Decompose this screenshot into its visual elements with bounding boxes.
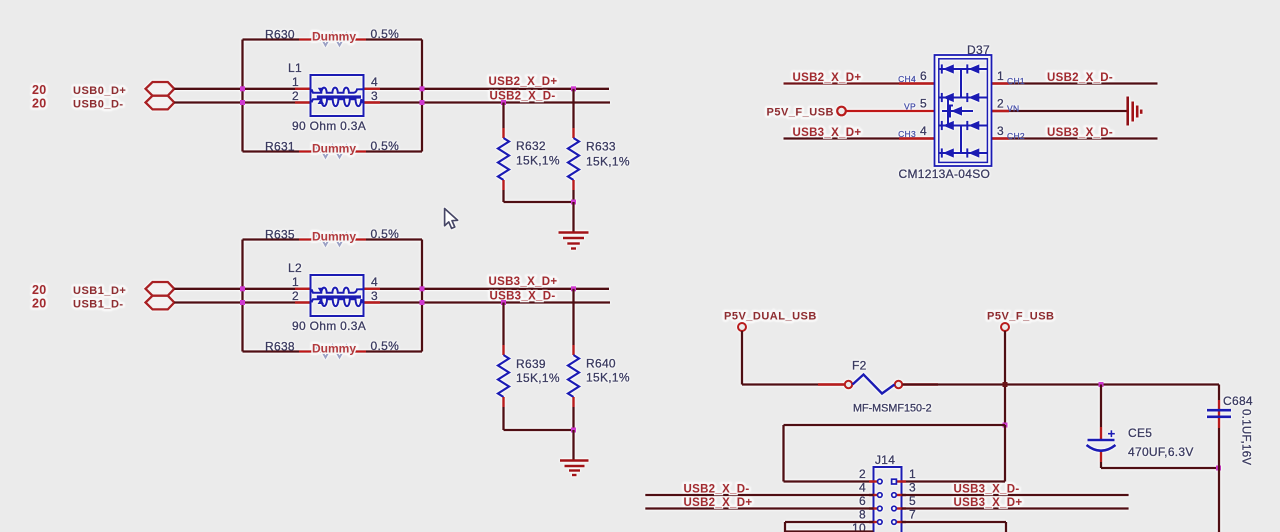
wire to J14 pin2 bbox=[784, 480, 874, 482]
svg-text:4: 4 bbox=[920, 124, 927, 138]
pin number 20 (USB1_D+) bbox=[32, 283, 47, 297]
svg-text:Dummy: Dummy bbox=[312, 142, 356, 156]
net label USB3_X_D- (J14) bbox=[954, 484, 1020, 496]
junction dot R633 tap bbox=[571, 86, 576, 91]
svg-text:USB0_D-: USB0_D- bbox=[73, 99, 124, 111]
wire USB1_D+ horizontal bbox=[174, 288, 609, 290]
resistor R632 bbox=[498, 103, 560, 203]
J14 pin circles right bbox=[892, 479, 906, 524]
svg-text:2: 2 bbox=[997, 97, 1004, 111]
wire down to ground 2 bbox=[572, 430, 574, 460]
D37 diode row 3 bbox=[939, 121, 988, 130]
wire P5V_F_USB down bbox=[1004, 331, 1006, 425]
wire R639/R640 bottom join bbox=[504, 429, 574, 431]
svg-text:VP: VP bbox=[904, 102, 916, 112]
junction dot R632 tap bbox=[501, 100, 506, 105]
net label USB3_X_D- (D37) bbox=[1047, 127, 1113, 139]
svg-text:3: 3 bbox=[371, 289, 378, 303]
svg-text:CH2: CH2 bbox=[1007, 131, 1025, 141]
D37 pin numbers bbox=[920, 69, 1004, 138]
wire R638 bottom horizontal bbox=[243, 350, 423, 352]
D37 internal verticals bbox=[948, 69, 961, 153]
svg-text:20: 20 bbox=[32, 97, 47, 111]
mouse cursor bbox=[445, 209, 458, 229]
svg-text:R640: R640 bbox=[586, 357, 616, 371]
wire USB1_D- horizontal bbox=[174, 301, 610, 303]
svg-text:Dummy: Dummy bbox=[312, 342, 356, 356]
wire D37 pin5 left (P5V_F_USB) bbox=[846, 110, 935, 112]
wire R631 bottom horizontal bbox=[243, 150, 423, 152]
svg-text:1: 1 bbox=[292, 275, 299, 289]
svg-text:R630: R630 bbox=[265, 28, 295, 42]
svg-text:P5V_DUAL_USB: P5V_DUAL_USB bbox=[724, 311, 817, 323]
wire D37 pin4 left bbox=[784, 137, 935, 139]
J14 pin numbers left bbox=[852, 467, 866, 532]
svg-text:L2: L2 bbox=[288, 261, 302, 275]
net label USB2_X_D- (D37) bbox=[1047, 72, 1113, 84]
svg-text:USB3_X_D+: USB3_X_D+ bbox=[954, 497, 1023, 509]
svg-text:20: 20 bbox=[32, 297, 47, 311]
svg-text:R631: R631 bbox=[265, 140, 295, 154]
svg-text:C684: C684 bbox=[1223, 394, 1253, 408]
resistor R633 bbox=[568, 89, 630, 202]
junction dot CE5 bbox=[1099, 382, 1104, 387]
junction dot P5V loop bbox=[1003, 423, 1008, 428]
J14 pin numbers right bbox=[909, 467, 916, 522]
wire J14 pin10 row bbox=[785, 530, 874, 532]
svg-text:20: 20 bbox=[32, 83, 47, 97]
inductor L1 (common mode choke) bbox=[288, 61, 380, 133]
svg-text:USB2_X_D+: USB2_X_D+ bbox=[489, 76, 558, 88]
wire J14 pin7 row bbox=[902, 522, 1007, 532]
svg-text:USB2_X_D-: USB2_X_D- bbox=[1047, 72, 1113, 84]
svg-text:4: 4 bbox=[371, 75, 378, 89]
resistor R638 (dummy) bbox=[265, 339, 399, 358]
D37 diode row 2 bbox=[939, 93, 988, 102]
ground symbol (bottom left) bbox=[560, 461, 589, 476]
net label USB2_X_D- (J14) bbox=[684, 484, 750, 496]
wire J14 pin1 to rail bbox=[902, 425, 1006, 482]
D37 zener middle bbox=[942, 106, 973, 117]
net label USB2_X_D+ (J14) bbox=[684, 497, 753, 509]
wire CE5 bottom to rail bbox=[1101, 467, 1219, 469]
junction dot bottom join bbox=[571, 200, 576, 205]
D37 diode row 4 bbox=[939, 148, 988, 157]
ground symbol (top) bbox=[559, 233, 589, 249]
svg-text:CH3: CH3 bbox=[898, 129, 916, 139]
port USB1_D+ bbox=[73, 282, 174, 297]
wire down to ground bbox=[572, 202, 574, 232]
svg-text:USB1_D-: USB1_D- bbox=[73, 299, 124, 311]
wire J14 pin8 row bbox=[785, 522, 874, 532]
svg-text:P5V_F_USB: P5V_F_USB bbox=[767, 107, 834, 119]
resistor R635 (dummy) bbox=[265, 227, 399, 246]
wire P5V_DUAL_USB down bbox=[741, 331, 743, 385]
svg-text:CH1: CH1 bbox=[1007, 76, 1025, 86]
net label USB3_X_D+ bbox=[489, 276, 558, 288]
svg-text:L1: L1 bbox=[288, 61, 302, 75]
net label USB3_X_D- bbox=[490, 291, 556, 303]
svg-text:1: 1 bbox=[292, 75, 299, 89]
wire R635/R638 loop right vertical bbox=[421, 240, 423, 352]
svg-text:USB3_X_D+: USB3_X_D+ bbox=[793, 127, 862, 139]
svg-text:R635: R635 bbox=[265, 228, 295, 242]
svg-text:CH4: CH4 bbox=[898, 74, 916, 84]
junction dot C684 bottom bbox=[1216, 466, 1221, 471]
junction dot R640 tap bbox=[571, 286, 576, 291]
svg-text:USB3_X_D-: USB3_X_D- bbox=[490, 291, 556, 303]
wire fuse to rail bbox=[903, 383, 1220, 385]
resistor R639 bbox=[498, 303, 560, 431]
svg-text:MF-MSMF150-2: MF-MSMF150-2 bbox=[853, 403, 932, 415]
wire D37 pin3 right bbox=[992, 137, 1158, 139]
port USB0_D- bbox=[73, 96, 174, 111]
svg-text:6: 6 bbox=[920, 69, 927, 83]
wire J14 pin5 row bbox=[645, 507, 1128, 509]
svg-text:USB0_D+: USB0_D+ bbox=[73, 85, 126, 97]
capacitor C684 bbox=[1207, 385, 1253, 532]
svg-text:1: 1 bbox=[909, 467, 916, 481]
svg-text:0.5%: 0.5% bbox=[371, 339, 400, 353]
svg-text:20: 20 bbox=[32, 283, 47, 297]
svg-text:USB3_X_D-: USB3_X_D- bbox=[954, 484, 1020, 496]
svg-text:CM1213A-04SO: CM1213A-04SO bbox=[899, 167, 991, 181]
svg-text:P5V_F_USB: P5V_F_USB bbox=[987, 311, 1054, 323]
net label USB3_X_D+ (D37) bbox=[793, 127, 862, 139]
svg-text:Dummy: Dummy bbox=[312, 30, 356, 44]
D37 diode row 1 bbox=[939, 64, 988, 73]
wire R635/R638 loop left vertical bbox=[241, 240, 243, 352]
power port P5V_F_USB (left of D37) bbox=[767, 107, 846, 119]
svg-text:90 Ohm 0.3A: 90 Ohm 0.3A bbox=[292, 319, 366, 333]
wire D37 pin6 left bbox=[784, 82, 935, 84]
wire R635 top horizontal bbox=[243, 238, 423, 240]
connector J14 body bbox=[874, 453, 902, 532]
svg-text:USB3_X_D-: USB3_X_D- bbox=[1047, 127, 1113, 139]
junction dot bottom join 2 bbox=[571, 428, 576, 433]
svg-text:3: 3 bbox=[909, 481, 916, 495]
junction dots loop/top wires bbox=[240, 86, 425, 105]
svg-text:USB1_D+: USB1_D+ bbox=[73, 285, 126, 297]
capacitor CE5 bbox=[1087, 385, 1194, 469]
resistor R640 bbox=[568, 289, 630, 430]
svg-text:90 Ohm 0.3A: 90 Ohm 0.3A bbox=[292, 119, 366, 133]
svg-text:470UF,6.3V: 470UF,6.3V bbox=[1128, 445, 1194, 459]
svg-text:0.5%: 0.5% bbox=[371, 139, 400, 153]
wire P5V loop left bbox=[784, 424, 1006, 426]
wire D37 pin1 right bbox=[992, 82, 1158, 84]
wire R632/R633 bottom join bbox=[504, 201, 574, 203]
svg-text:4: 4 bbox=[371, 275, 378, 289]
svg-text:Dummy: Dummy bbox=[312, 230, 356, 244]
junction dot R639 tap bbox=[501, 300, 506, 305]
svg-text:15K,1%: 15K,1% bbox=[516, 371, 560, 385]
wire P5V loop left down bbox=[782, 425, 784, 482]
diode array U-body D37 bbox=[899, 43, 992, 181]
power port P5V_F_USB (top of rail) bbox=[987, 311, 1054, 332]
svg-text:F2: F2 bbox=[852, 359, 867, 373]
svg-text:15K,1%: 15K,1% bbox=[516, 154, 560, 168]
pin number 20 (USB0_D+) bbox=[32, 83, 47, 97]
wire R630/R631 loop left vertical bbox=[241, 40, 243, 152]
svg-text:R633: R633 bbox=[586, 140, 616, 154]
wire R630 top horizontal bbox=[243, 38, 423, 40]
pin number 20 (USB1_D-) bbox=[32, 297, 47, 311]
svg-text:R632: R632 bbox=[516, 139, 546, 153]
fuse F2 bbox=[818, 359, 938, 415]
svg-text:USB2_X_D-: USB2_X_D- bbox=[490, 91, 556, 103]
wire D37 pin2 right (VN) bbox=[992, 110, 1127, 112]
svg-text:5: 5 bbox=[920, 97, 927, 111]
net label USB2_X_D+ (D37) bbox=[793, 72, 862, 84]
svg-text:1: 1 bbox=[997, 69, 1004, 83]
pin number 20 (USB0_D-) bbox=[32, 97, 47, 111]
svg-text:0.5%: 0.5% bbox=[371, 27, 400, 41]
wire USB0_D+ horizontal bbox=[174, 88, 609, 90]
svg-text:J14: J14 bbox=[875, 453, 895, 467]
svg-text:15K,1%: 15K,1% bbox=[586, 371, 630, 385]
port USB1_D- bbox=[73, 296, 174, 311]
svg-text:3: 3 bbox=[371, 89, 378, 103]
svg-text:D37: D37 bbox=[967, 43, 990, 57]
resistor R631 (dummy) bbox=[265, 139, 399, 158]
svg-text:15K,1%: 15K,1% bbox=[586, 155, 630, 169]
svg-text:R638: R638 bbox=[265, 340, 295, 354]
junction dots loop/bottom wires bbox=[240, 286, 425, 305]
svg-text:0.5%: 0.5% bbox=[371, 227, 400, 241]
wire J14 pin3 row bbox=[645, 494, 1128, 496]
port USB0_D+ bbox=[73, 82, 174, 97]
svg-text:2: 2 bbox=[292, 289, 299, 303]
svg-text:2: 2 bbox=[292, 89, 299, 103]
net label USB2_X_D- bbox=[490, 91, 556, 103]
J14 pin circles left bbox=[869, 479, 882, 524]
svg-text:USB2_X_D-: USB2_X_D- bbox=[684, 484, 750, 496]
svg-text:CE5: CE5 bbox=[1128, 426, 1152, 440]
svg-text:0.1UF,16V: 0.1UF,16V bbox=[1240, 409, 1252, 465]
power port P5V_DUAL_USB bbox=[724, 311, 817, 332]
svg-text:USB2_X_D+: USB2_X_D+ bbox=[793, 72, 862, 84]
svg-text:2: 2 bbox=[859, 467, 866, 481]
net label USB3_X_D+ (J14) bbox=[954, 497, 1023, 509]
D37 pin names bbox=[898, 74, 1025, 141]
svg-text:USB3_X_D+: USB3_X_D+ bbox=[489, 276, 558, 288]
wire USB0_D- horizontal bbox=[174, 101, 610, 103]
resistor R630 (dummy) bbox=[265, 27, 399, 46]
svg-text:3: 3 bbox=[997, 124, 1004, 138]
wire R630/R631 loop right vertical bbox=[421, 40, 423, 152]
svg-text:4: 4 bbox=[859, 481, 866, 495]
junction fuse/rail bbox=[1003, 382, 1008, 387]
svg-text:USB2_X_D+: USB2_X_D+ bbox=[684, 497, 753, 509]
ground (rotated bars) on VN bbox=[1128, 97, 1142, 126]
svg-text:R639: R639 bbox=[516, 357, 546, 371]
svg-text:VN: VN bbox=[1007, 104, 1019, 114]
wire to fuse bbox=[742, 383, 845, 385]
net label USB2_X_D+ bbox=[489, 76, 558, 88]
inductor L2 (common mode choke) bbox=[288, 261, 380, 333]
